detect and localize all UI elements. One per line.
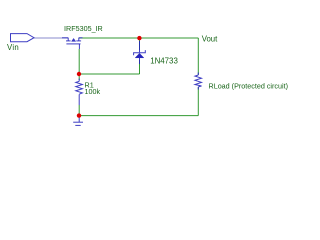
svg-text:IRF5305_IR: IRF5305_IR <box>64 24 103 33</box>
svg-text:RLoad (Protected circuit): RLoad (Protected circuit) <box>209 81 289 90</box>
svg-text:1N4733: 1N4733 <box>150 56 178 65</box>
svg-text:Vout: Vout <box>202 35 218 44</box>
svg-text:100k: 100k <box>85 87 101 96</box>
svg-text:Vin: Vin <box>7 43 19 52</box>
